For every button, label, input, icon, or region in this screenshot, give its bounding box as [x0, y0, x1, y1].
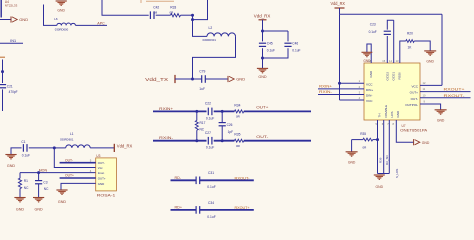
svg-text:RSSI: RSSI	[398, 72, 402, 79]
ground	[424, 50, 436, 52]
svg-text:NC: NC	[44, 187, 49, 191]
wire cap frame top	[263, 31, 289, 41]
power port GND	[227, 76, 229, 82]
wire R33 to node	[181, 14, 193, 16]
wire OUT+	[244, 110, 311, 114]
ground	[435, 109, 447, 111]
inductor L2	[207, 33, 236, 37]
pin 9 OUTPOL wire	[420, 104, 441, 110]
svg-text:GND: GND	[58, 200, 67, 204]
svg-text:C3: C3	[43, 180, 47, 184]
svg-text:Vdd_TX: Vdd_TX	[145, 77, 168, 82]
svg-text:S_LOS: S_LOS	[395, 169, 399, 178]
wire RD+	[171, 208, 197, 212]
power port Vdd_RX bar	[335, 7, 345, 9]
wire R1 to gnd	[19, 189, 21, 198]
wire RXOUT-	[200, 179, 254, 183]
wire rail left drop	[339, 14, 341, 100]
wire R1 stem	[19, 173, 21, 179]
svg-text:Vcc: Vcc	[98, 166, 103, 170]
capacitor C34	[195, 206, 197, 214]
resistor R33	[171, 14, 181, 17]
net label (clipped at left)	[0, 56, 5, 58]
wire OUT-	[244, 139, 311, 143]
svg-text:VCC: VCC	[366, 99, 373, 103]
capacitor C26	[219, 121, 226, 123]
inductor L6	[57, 23, 76, 25]
ground	[56, 189, 67, 191]
wire node jog	[192, 15, 194, 19]
svg-text:L6: L6	[54, 17, 58, 21]
svg-text:U7: U7	[402, 124, 406, 128]
svg-text:Vdd_RX: Vdd_RX	[254, 13, 271, 18]
svg-text:0.1uF: 0.1uF	[207, 185, 215, 189]
svg-text:IN1: IN1	[10, 39, 16, 43]
wire Vdd_TX to C79	[175, 78, 202, 80]
wire R20 to gnd	[414, 41, 430, 51]
svg-text:L1: L1	[70, 132, 74, 136]
svg-text:RXOUT+: RXOUT+	[235, 206, 250, 210]
svg-text:0.1uF: 0.1uF	[206, 146, 214, 150]
pin 2 DIN+ wire	[318, 88, 364, 90]
pin 12 VCC wire	[420, 84, 442, 86]
inductor L1	[66, 145, 91, 148]
svg-text:OCO2: OCO2	[385, 72, 389, 81]
wire to ground	[351, 140, 353, 152]
wire OUT- stub	[60, 161, 96, 164]
svg-text:R35: R35	[234, 133, 240, 137]
ground	[33, 196, 44, 198]
resistor R35 (TH)	[363, 138, 373, 141]
svg-text:MON: MON	[39, 169, 48, 173]
ground	[14, 196, 25, 198]
svg-text:GND: GND	[369, 70, 373, 78]
svg-text:RXIN+: RXIN+	[319, 85, 332, 89]
IC U4 (clipped at edge)	[0, 0, 3, 18]
net label (clipped at top)	[141, 0, 174, 3]
svg-text:030RD600: 030RD600	[55, 28, 69, 32]
junction	[221, 139, 224, 142]
wire VCC rail	[340, 13, 443, 15]
svg-text:RXIN-: RXIN-	[319, 90, 332, 94]
pin 7 LOS wire	[388, 120, 390, 174]
svg-text:GND: GND	[422, 141, 430, 145]
svg-text:RXIN+: RXIN+	[159, 107, 174, 111]
svg-text:OUT+: OUT+	[65, 174, 74, 178]
wire node to L2	[193, 20, 208, 37]
power port Vdd_TX bar	[174, 75, 177, 83]
ground	[5, 153, 16, 155]
resistor R1	[18, 178, 21, 188]
svg-text:R33: R33	[170, 6, 176, 10]
svg-text:VCC: VCC	[411, 85, 418, 89]
svg-text:R20: R20	[407, 32, 413, 36]
svg-text:Vdd_RX: Vdd_RX	[331, 1, 346, 6]
svg-text:RX_SD: RX_SD	[385, 155, 389, 165]
wire C42 to R33	[156, 14, 171, 16]
junction	[221, 110, 224, 113]
svg-text:TH: TH	[378, 114, 382, 118]
resistor R34	[234, 110, 243, 113]
wire U4 pin to GND port	[0, 19, 11, 21]
wire L2 loop	[193, 36, 236, 79]
ground	[56, 0, 67, 2]
svg-text:RXIN-: RXIN-	[159, 136, 174, 140]
pin 1 VCC wire	[340, 82, 365, 84]
wire C26 stem low	[221, 126, 223, 141]
wire APC	[76, 24, 108, 26]
svg-text:R1: R1	[24, 179, 28, 183]
svg-text:DISABLE: DISABLE	[384, 105, 388, 118]
svg-text:GND: GND	[348, 161, 356, 165]
svg-text:030RD601: 030RD601	[60, 138, 74, 142]
svg-text:RXOUT-: RXOUT-	[235, 176, 251, 180]
svg-text:1pF: 1pF	[228, 130, 234, 134]
pin 5 TH wire	[377, 120, 379, 174]
junction	[195, 110, 198, 113]
svg-text:GND: GND	[19, 17, 28, 22]
wire MON	[20, 172, 96, 174]
svg-text:OCO1: OCO1	[392, 72, 396, 81]
svg-text:GND: GND	[57, 9, 65, 13]
svg-text:RXOUT-: RXOUT-	[444, 94, 466, 98]
junction	[191, 14, 194, 17]
svg-text:DIN-: DIN-	[366, 94, 372, 98]
svg-text:68: 68	[154, 11, 158, 15]
wire cap frame right	[287, 31, 289, 41]
wire IN1	[0, 42, 23, 44]
wire RXOUT+	[200, 208, 254, 212]
svg-text:GND: GND	[98, 182, 104, 186]
svg-text:C79: C79	[199, 70, 205, 74]
svg-text:NC: NC	[200, 127, 205, 131]
ground	[257, 67, 268, 69]
svg-text:OUT+: OUT+	[98, 177, 106, 181]
svg-text:R35: R35	[360, 132, 366, 136]
svg-text:VCC: VCC	[366, 82, 373, 86]
svg-text:Vdd_RX: Vdd_RX	[117, 143, 133, 148]
wire Vdd_RX stem	[262, 20, 264, 31]
resistor R17	[195, 121, 198, 131]
svg-text:C22: C22	[205, 102, 211, 106]
wire GND row	[61, 183, 96, 190]
junction	[53, 146, 56, 149]
svg-text:OUT-: OUT-	[411, 97, 418, 101]
junction	[261, 57, 264, 60]
wire C21 down	[2, 89, 4, 111]
wire to top edge	[193, 0, 208, 20]
svg-text:C27: C27	[205, 131, 211, 135]
capacitor C3	[35, 179, 42, 181]
svg-text:GND: GND	[16, 208, 25, 212]
capacitor C21	[0, 83, 6, 85]
svg-text:C26: C26	[227, 123, 233, 127]
wire L1 to Vdd_RX	[90, 147, 114, 149]
svg-text:R34: R34	[234, 103, 240, 107]
wire C1 to node	[29, 147, 55, 149]
svg-text:0.1uF: 0.1uF	[22, 154, 30, 158]
wire rail right drop	[441, 14, 443, 85]
wire cap frame right low	[263, 48, 289, 58]
junction	[191, 18, 194, 21]
junction	[191, 78, 194, 81]
pin 14 OCO1 wire	[393, 20, 395, 63]
wire C1 gnd corner	[11, 148, 22, 155]
limiting amplifier U7 body	[364, 63, 420, 120]
wire R17 stems	[196, 111, 198, 120]
wire C27 to R35	[214, 139, 235, 143]
resistor R35	[234, 139, 243, 142]
svg-text:GND: GND	[258, 75, 267, 79]
power port Vdd_RX bar	[259, 19, 267, 21]
svg-text:GND: GND	[376, 185, 384, 189]
ground	[362, 51, 373, 53]
pin 6 DISABLE wire	[383, 120, 385, 174]
wire to ground	[262, 58, 264, 68]
svg-text:GND: GND	[236, 77, 245, 82]
svg-text:OUT+: OUT+	[256, 106, 269, 110]
capacitor C1	[22, 144, 24, 152]
svg-text:GND: GND	[426, 60, 434, 64]
svg-text:0.1uF: 0.1uF	[207, 215, 215, 219]
svg-text:APC: APC	[97, 22, 105, 26]
svg-text:C42: C42	[153, 6, 159, 10]
junction	[338, 82, 341, 85]
pin 10 OUT- wire	[420, 97, 471, 99]
svg-text:1uF: 1uF	[199, 87, 205, 91]
svg-text:470pF: 470pF	[9, 90, 18, 94]
svg-text:C1: C1	[21, 140, 25, 144]
junction	[376, 138, 379, 141]
capacitor C27	[207, 137, 209, 145]
svg-text:GND: GND	[396, 110, 400, 118]
svg-text:C46: C46	[292, 41, 298, 45]
wire into L6	[44, 5, 57, 26]
capacitor C42	[149, 11, 151, 19]
pin 13 RSSI wire	[400, 41, 406, 63]
pin 15 OCO2 wire	[386, 36, 388, 63]
wire C3 to gnd	[38, 184, 40, 198]
wire node to L1	[54, 147, 65, 149]
capacitor C45	[259, 42, 266, 44]
svg-text:C34: C34	[208, 201, 214, 205]
wire C3 stem	[38, 173, 40, 181]
svg-text:OUT+: OUT+	[410, 91, 419, 95]
svg-text:L2: L2	[209, 26, 213, 30]
svg-text:R17: R17	[200, 121, 206, 125]
pin 4 VCC wire	[340, 99, 365, 101]
junction	[37, 171, 40, 174]
svg-text:R36: R36	[379, 157, 383, 163]
power port GND	[413, 139, 415, 145]
resistor R20	[406, 40, 414, 43]
power port Vdd_RX bar	[113, 144, 116, 152]
svg-text:OUT-: OUT-	[256, 135, 269, 139]
wire RXIN-	[153, 139, 207, 143]
pin 16 GND wire	[367, 44, 371, 63]
svg-text:DIN+: DIN+	[366, 88, 373, 92]
wire R35b right	[373, 139, 378, 141]
junction	[1, 70, 4, 73]
capacitor C46	[284, 42, 291, 44]
svg-text:GND: GND	[437, 119, 445, 123]
svg-text:NC: NC	[24, 186, 29, 190]
svg-text:RXOUT+: RXOUT+	[444, 88, 465, 92]
junction	[261, 30, 264, 33]
svg-text:0.1uF: 0.1uF	[369, 30, 377, 34]
ground	[374, 174, 385, 176]
svg-text:ROSA-1: ROSA-1	[97, 193, 116, 197]
ground	[346, 151, 358, 153]
capacitor C22	[207, 108, 209, 116]
wire RXIN+	[153, 110, 207, 114]
wire C23 top loop	[387, 20, 393, 29]
svg-text:NT22L33: NT22L33	[5, 4, 18, 8]
svg-text:ONET8501PA: ONET8501PA	[400, 128, 428, 132]
wire node to U3 Vcc	[54, 148, 95, 168]
wire C26 stem	[221, 111, 223, 122]
svg-text:030RD601: 030RD601	[203, 38, 217, 42]
wire RD-	[171, 179, 197, 183]
pin 3 DIN- wire	[318, 94, 364, 96]
pin 8 GND wire	[396, 120, 413, 142]
svg-text:GND: GND	[7, 164, 16, 168]
svg-text:OUT-: OUT-	[98, 161, 105, 165]
wire bottom join	[378, 173, 390, 175]
svg-text:Imon: Imon	[98, 171, 105, 175]
capacitor C79	[200, 75, 202, 83]
svg-text:U3: U3	[96, 154, 100, 158]
svg-text:OUTPOL: OUTPOL	[405, 103, 418, 107]
junction	[195, 139, 198, 142]
capacitor C23	[384, 30, 391, 32]
wire cap frame left low	[262, 48, 264, 58]
svg-text:0.1uF: 0.1uF	[292, 48, 300, 52]
wire to C42	[102, 0, 149, 15]
wire R35b left	[352, 139, 363, 141]
wire Vdd_RX stem	[339, 8, 341, 14]
wire C22 to R34	[214, 110, 235, 114]
svg-text:C45: C45	[267, 41, 273, 45]
svg-text:GND: GND	[34, 208, 43, 212]
pin 11 OUT+ wire	[420, 91, 471, 93]
wire C79 to GND	[205, 78, 228, 80]
svg-text:0.1uF: 0.1uF	[206, 116, 214, 120]
svg-text:LOS: LOS	[390, 111, 394, 117]
capacitor C31	[195, 177, 197, 185]
wire R17 stem low	[196, 130, 198, 141]
photodiode module U3 body	[96, 158, 117, 191]
power port GND	[10, 16, 12, 22]
svg-text:C23: C23	[370, 22, 376, 26]
wire OUT+ stub	[60, 176, 96, 179]
svg-text:C31: C31	[208, 171, 214, 175]
svg-text:0.1uF: 0.1uF	[267, 48, 275, 52]
wire C21 column	[2, 60, 4, 84]
svg-text:C21: C21	[7, 84, 13, 88]
